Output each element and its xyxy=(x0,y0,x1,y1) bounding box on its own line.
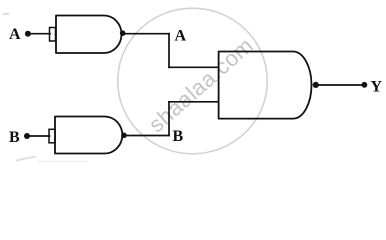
NAND3 output bubble xyxy=(313,82,319,88)
NAND2 output bubble xyxy=(121,133,127,139)
svg-text:A: A xyxy=(175,28,187,45)
watermark (decorative) xyxy=(118,8,268,154)
svg-text:B: B xyxy=(9,129,20,146)
svg-text:B: B xyxy=(173,128,184,145)
NAND1 output bubble xyxy=(120,30,126,36)
wire B input to NAND2 xyxy=(30,135,50,137)
wire A input to NAND1 xyxy=(31,33,51,35)
wire NAND1 output horizontal xyxy=(125,33,169,35)
wire vertical step up from node B xyxy=(168,102,170,136)
svg-text:A: A xyxy=(9,26,21,43)
wire NAND3 output to Y xyxy=(319,84,362,86)
NAND gate 2 body xyxy=(55,117,122,154)
wire into NAND3 top input xyxy=(169,66,219,68)
wire into NAND3 bottom input xyxy=(169,101,219,103)
svg-text:Y: Y xyxy=(371,78,383,95)
wire NAND2 output horizontal xyxy=(127,135,169,137)
NAND gate 1 body xyxy=(56,16,122,54)
input terminal dot A xyxy=(25,31,31,37)
NAND2 shorted-input tie bracket xyxy=(49,129,55,143)
NAND1 shorted-input tie bracket xyxy=(50,28,56,42)
NAND gate 3 body (output stage) xyxy=(219,52,312,119)
faint scan smudges (decorative) xyxy=(4,14,89,162)
input terminal dot B xyxy=(24,133,30,139)
output terminal dot Y xyxy=(362,82,368,88)
wire vertical step down from node A xyxy=(168,34,170,68)
